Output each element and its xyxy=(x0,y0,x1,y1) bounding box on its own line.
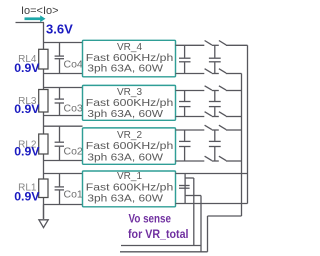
wire row1 top left xyxy=(43,173,83,175)
wire row2 bottom right with switch gaps xyxy=(176,160,242,162)
svg-text:0.9V: 0.9V xyxy=(14,190,40,204)
svg-text:Fast 600KHz/ph: Fast 600KHz/ph xyxy=(86,141,174,152)
switch S4a blade2 xyxy=(219,41,226,45)
wire main left bus xyxy=(43,23,45,220)
wire row2 bottom left xyxy=(43,160,83,162)
wire right bus V2 xyxy=(241,74,243,217)
capacitor C2b output row2 xyxy=(209,130,221,161)
switch S2b blade1 xyxy=(205,156,212,160)
capacitor Co1 xyxy=(55,174,64,205)
capacitor C4b output row4 xyxy=(209,45,221,73)
switch S4b blade2 xyxy=(219,69,226,73)
VR module U3 (VR_3) xyxy=(83,85,176,120)
VR module U1 (VR_1) xyxy=(83,171,176,207)
switch S3b blade1 xyxy=(205,112,212,116)
wire row4 top right with switch gaps xyxy=(176,44,248,46)
svg-text:3ph 63A, 60W: 3ph 63A, 60W xyxy=(87,193,163,204)
wire row3 bottom right with switch gaps xyxy=(176,116,242,118)
capacitor Co3 xyxy=(55,88,64,116)
wire row3 bottom left xyxy=(43,115,83,117)
wire sense leg x207.5 xyxy=(207,216,209,252)
wire row2 top right with switch gaps xyxy=(176,129,242,131)
switch S4a blade1 xyxy=(205,41,212,45)
svg-text:3ph 63A, 60W: 3ph 63A, 60W xyxy=(87,64,163,75)
wire row3 top right with switch gaps xyxy=(176,90,242,92)
svg-text:0.9V: 0.9V xyxy=(14,61,40,75)
wire row1 top right xyxy=(176,173,248,175)
svg-text:Co3: Co3 xyxy=(64,103,83,115)
svg-text:VR_4: VR_4 xyxy=(117,42,142,53)
capacitor C2a output row2 xyxy=(179,130,191,161)
svg-text:Fast 600KHz/ph: Fast 600KHz/ph xyxy=(86,182,174,193)
svg-text:Fast 600KHz/ph: Fast 600KHz/ph xyxy=(86,98,174,109)
wire row3 top left xyxy=(43,87,83,89)
VR module U4 (VR_4) xyxy=(83,40,176,77)
svg-text:VR_2: VR_2 xyxy=(117,130,142,141)
wire row4 bottom right with switch gaps xyxy=(176,73,242,75)
wire sense tap Hj xyxy=(185,177,194,179)
current arrow Io xyxy=(25,15,46,22)
switch S2b blade2 xyxy=(219,156,226,160)
capacitor C3b output row3 xyxy=(209,91,221,117)
wire sense bottom Ha xyxy=(121,245,201,247)
capacitor Co2 xyxy=(55,126,64,160)
wire row1 bottom right xyxy=(176,203,248,205)
switch S2a blade2 xyxy=(219,125,226,129)
switch S3a blade2 xyxy=(219,86,226,90)
svg-text:Vo sense: Vo sense xyxy=(129,213,172,225)
wire input stub top-left xyxy=(16,22,45,24)
switch S4b blade1 xyxy=(205,69,212,73)
svg-text:0.9V: 0.9V xyxy=(14,145,40,159)
svg-text:0.9V: 0.9V xyxy=(14,102,40,116)
svg-text:for VR_total: for VR_total xyxy=(128,229,189,241)
svg-text:VR_3: VR_3 xyxy=(117,87,142,98)
resistor RL3 xyxy=(39,90,48,113)
resistor RL1 xyxy=(39,179,48,198)
svg-text:Co1: Co1 xyxy=(64,189,83,201)
svg-text:Co2: Co2 xyxy=(64,146,83,158)
wire sense leg Vc xyxy=(200,196,202,252)
wire row4 bottom left xyxy=(43,73,83,75)
resistor RL4 xyxy=(39,49,48,69)
wire sense leg Vb xyxy=(193,178,195,246)
svg-text:3.6V: 3.6V xyxy=(46,22,73,37)
svg-text:3ph 63A, 60W: 3ph 63A, 60W xyxy=(87,109,163,120)
svg-text:VR_1: VR_1 xyxy=(117,171,142,182)
capacitor C4a output row4 xyxy=(179,45,191,73)
switch S2a blade1 xyxy=(205,125,212,129)
wire sense bottom Hb xyxy=(120,251,208,253)
switch S3b blade2 xyxy=(219,112,226,116)
wire sense tap Hk xyxy=(185,195,201,197)
switch S3a blade1 xyxy=(205,86,212,90)
capacitor C3a output row3 xyxy=(179,91,191,117)
VR module U2 (VR_2) xyxy=(83,128,176,164)
resistor RL2 xyxy=(39,134,48,154)
wire row1 bottom left xyxy=(43,204,83,206)
capacitor Co4 xyxy=(55,43,64,74)
svg-text:Co4: Co4 xyxy=(64,59,83,71)
wire sense jog H216 xyxy=(208,215,242,217)
wire right bus V1 xyxy=(247,45,249,203)
ground xyxy=(39,205,48,228)
wire row2 top left xyxy=(43,125,83,127)
wire row4 top left xyxy=(43,42,83,44)
capacitor C1a output row1 xyxy=(179,174,190,204)
svg-text:Fast 600KHz/ph: Fast 600KHz/ph xyxy=(86,53,174,64)
svg-text:3ph 63A, 60W: 3ph 63A, 60W xyxy=(87,152,163,163)
svg-text:Io=<Io>: Io=<Io> xyxy=(21,5,59,17)
